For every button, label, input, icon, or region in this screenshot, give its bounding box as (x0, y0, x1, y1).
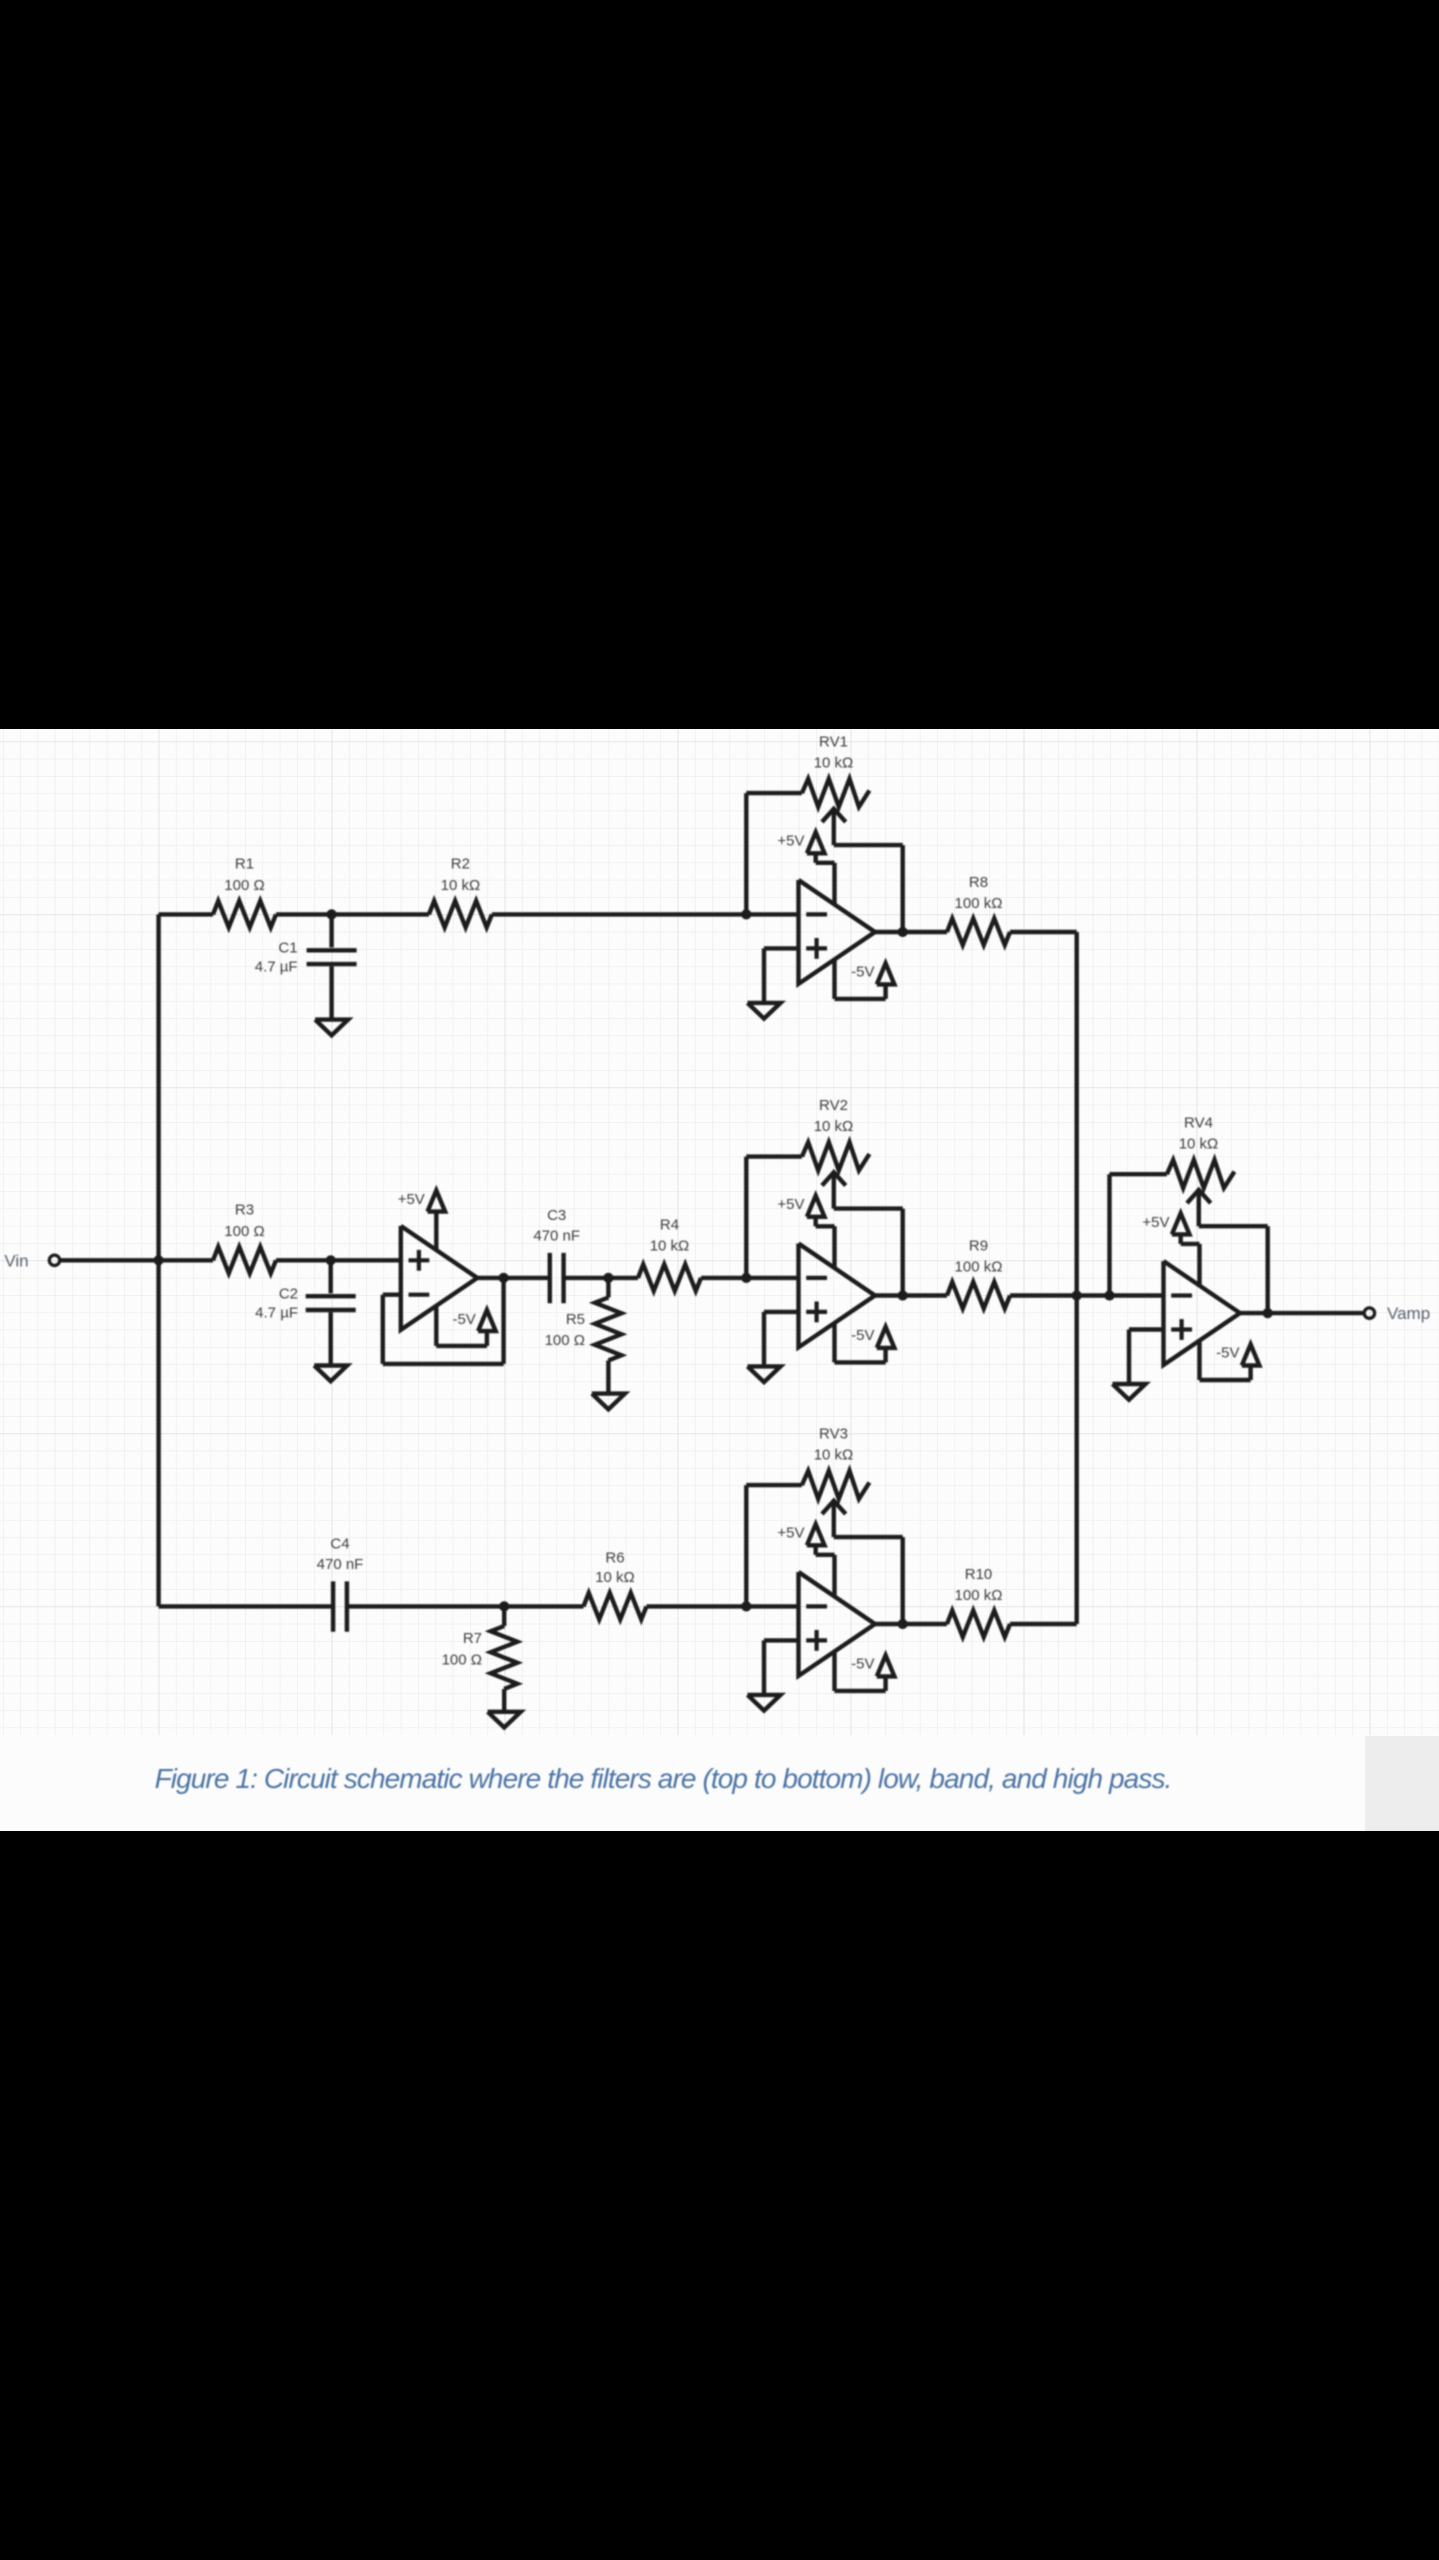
-5V supply arrow for U2 (835, 1323, 895, 1362)
-5V supply arrow for buffer U5 (436, 1305, 495, 1346)
svg-text:RV3: RV3 (819, 1425, 848, 1442)
svg-text:-5V: -5V (851, 1327, 874, 1344)
wiper of RV3 to U3 output (822, 1501, 903, 1624)
svg-text:-5V: -5V (1216, 1345, 1239, 1362)
wire: junction to U4 inverting input (1110, 1293, 1164, 1297)
capacitor C4 470 nF (series) (333, 1581, 347, 1631)
wire: feedback from RV2 to op-amp U2 inverting input (746, 1157, 802, 1278)
resistor R6 10 kOhm (584, 1593, 647, 1620)
wire: left bus to R3 (159, 1258, 213, 1262)
-5V supply arrow for U1 (835, 960, 895, 999)
potentiometer RV1 10 k&#937; (802, 779, 870, 807)
svg-text:R1: R1 (235, 855, 254, 872)
svg-text:10 kΩ: 10 kΩ (650, 1237, 690, 1254)
svg-text:10 kΩ: 10 kΩ (814, 754, 854, 771)
wire: summing bus joining R8, R9, R10 (1074, 932, 1078, 1624)
svg-text:100 Ω: 100 Ω (545, 1332, 585, 1349)
ground at U2 non-inverting input (748, 1366, 781, 1382)
ground at U1 non-inverting input (748, 1003, 781, 1019)
wire: R2 to U1 inverting input (492, 912, 799, 916)
-5V supply arrow for U3 (835, 1652, 895, 1691)
svg-text:10 kΩ: 10 kΩ (814, 1446, 854, 1463)
node: C3/R5/R4 junction (603, 1273, 613, 1283)
wire: bus junction to RV4 feedback junction (1077, 1293, 1110, 1297)
svg-text:+5V: +5V (777, 1196, 804, 1213)
wiper of RV4 to U4 output (1187, 1190, 1268, 1313)
node: R3/C2 junction (326, 1255, 336, 1265)
+5V supply arrow for U3 (807, 1524, 835, 1596)
capacitor C3 470 nF (series) (550, 1253, 564, 1303)
op-amp U2 (799, 1244, 876, 1348)
+5V supply arrow for U1 (807, 832, 835, 904)
svg-text:+5V: +5V (777, 1525, 804, 1542)
svg-text:10 kΩ: 10 kΩ (595, 1569, 635, 1586)
svg-text:100 kΩ: 100 kΩ (955, 1259, 1003, 1276)
svg-text:R5: R5 (566, 1311, 585, 1328)
document page (0, 729, 1439, 1831)
op-amp U5 (unity-gain buffer) (401, 1226, 478, 1330)
wire: U4 non-inverting input to ground (1129, 1330, 1164, 1385)
svg-text:+5V: +5V (398, 1191, 425, 1208)
wiper of RV2 to U2 output (822, 1172, 903, 1295)
svg-text:-5V: -5V (452, 1311, 475, 1328)
wire: feedback from RV4 to op-amp U4 inverting input (1110, 1174, 1167, 1295)
svg-text:RV2: RV2 (819, 1097, 848, 1114)
+5V supply arrow for U2 (807, 1196, 835, 1268)
svg-text:C4: C4 (330, 1535, 349, 1552)
wire: U1 non-inverting input to ground (764, 948, 799, 1003)
svg-text:100 kΩ: 100 kΩ (955, 895, 1003, 912)
wire: Vin to left bus (60, 1258, 158, 1262)
svg-text:10 kΩ: 10 kΩ (814, 1118, 854, 1135)
svg-text:C1: C1 (278, 939, 297, 956)
wire: bottom row lead to C4 (159, 1604, 333, 1608)
-5V supply arrow for U4 (1200, 1341, 1260, 1380)
resistor R9 100 kOhm (903, 1282, 1077, 1309)
node: U4 output junction (1263, 1308, 1273, 1318)
resistor R10 100 kOhm (903, 1611, 1077, 1638)
svg-text:C3: C3 (547, 1207, 566, 1224)
ground below R7 (488, 1712, 521, 1728)
node Vamp terminal (1364, 1308, 1374, 1318)
wire: buffer U5 output to C3 (477, 1276, 550, 1280)
potentiometer RV4 10 kOhm (1167, 1160, 1235, 1188)
svg-text:R4: R4 (660, 1216, 679, 1233)
wire: C3 to R4 (564, 1276, 638, 1280)
ground below R5 (592, 1394, 625, 1410)
svg-text:10 kΩ: 10 kΩ (441, 877, 481, 894)
resistor R7 100 Ohm (to ground) (491, 1606, 518, 1711)
svg-text:470 nF: 470 nF (533, 1227, 580, 1244)
svg-text:100 Ω: 100 Ω (224, 877, 264, 894)
svg-text:RV4: RV4 (1184, 1115, 1213, 1132)
node: buffer U5 output junction (499, 1273, 509, 1283)
capacitor C1 4.7 uF (shunt) (307, 914, 357, 1019)
svg-text:100 kΩ: 100 kΩ (955, 1587, 1003, 1604)
figure caption (155, 1763, 1172, 1794)
svg-text:+5V: +5V (777, 833, 804, 850)
node: U3 inverting input junction (741, 1601, 751, 1611)
scrollbar corner block (1365, 1736, 1439, 1831)
op-amp U3 (799, 1572, 876, 1676)
+5V supply arrow for buffer op-amp U5 (428, 1191, 446, 1251)
svg-text:470 nF: 470 nF (317, 1556, 364, 1573)
wire: top row lead to R1 (159, 912, 213, 916)
wire: U1 output (875, 930, 903, 934)
svg-text:R8: R8 (969, 874, 988, 891)
ground below C1 (315, 1020, 348, 1036)
resistor R3 100 Ohm (213, 1247, 276, 1274)
node: U3 output junction (898, 1619, 908, 1629)
node Vin terminal (49, 1255, 59, 1265)
capacitor C2 4.7 uF (shunt) (306, 1260, 356, 1365)
wire: U2 non-inverting input to ground (764, 1312, 799, 1367)
svg-text:R3: R3 (235, 1201, 254, 1218)
svg-text:100 Ω: 100 Ω (224, 1223, 264, 1240)
node: C4/R7/R6 junction (499, 1601, 509, 1611)
resistor R2 10 kOhm (429, 901, 492, 928)
wire: U2 output (875, 1293, 903, 1297)
svg-text:R9: R9 (969, 1238, 988, 1255)
svg-text:Vin: Vin (4, 1251, 28, 1270)
wire: C4 to R6 (347, 1604, 584, 1608)
svg-text:-5V: -5V (851, 1655, 874, 1672)
resistor R5 100 Ohm (to ground) (595, 1278, 622, 1394)
svg-text:R7: R7 (463, 1630, 482, 1647)
svg-text:Figure 1: Circuit schematic wh: Figure 1: Circuit schematic where the fi… (155, 1763, 1172, 1794)
wire: feedback from RV3 to op-amp U3 inverting input (746, 1485, 802, 1606)
svg-text:RV1: RV1 (819, 733, 848, 750)
node: U2 output junction (898, 1290, 908, 1300)
node: U1 inverting input junction (741, 909, 751, 919)
svg-text:R10: R10 (965, 1566, 993, 1583)
svg-text:100 Ω: 100 Ω (442, 1651, 482, 1668)
op-amp U1 (799, 880, 876, 984)
node: left bus / Vin junction (154, 1255, 164, 1265)
node: bus / R9 junction (1072, 1290, 1082, 1300)
wire: buffer U5 feedback loop output to inverting input (383, 1278, 504, 1364)
svg-text:10 kΩ: 10 kΩ (1179, 1136, 1219, 1153)
wire: feedback from RV1 to op-amp U1 inverting input (746, 793, 802, 914)
node: U1 output junction (898, 927, 908, 937)
wire: R4 to U2 inverting input (701, 1276, 799, 1280)
ground at U3 non-inverting input (748, 1695, 781, 1711)
svg-text:C2: C2 (279, 1285, 298, 1302)
+5V supply arrow for U4 (1172, 1213, 1200, 1285)
resistor R1 100 Ohm (213, 901, 276, 928)
svg-text:+5V: +5V (1142, 1214, 1169, 1231)
svg-text:4.7 µF: 4.7 µF (255, 958, 298, 975)
node: R1/C1/R2 junction (327, 909, 337, 919)
ground below C2 (314, 1366, 347, 1382)
resistor R4 10 kOhm (638, 1264, 701, 1291)
potentiometer RV2 10 k&#937; (802, 1142, 870, 1170)
wire: R1 to R2 (276, 912, 429, 916)
wire: U3 output (875, 1622, 903, 1626)
svg-text:-5V: -5V (851, 963, 874, 980)
svg-text:Vamp: Vamp (1387, 1304, 1430, 1323)
potentiometer RV3 10 k&#937; (802, 1471, 870, 1499)
wire: R3 to buffer + input (276, 1258, 401, 1262)
wire: U4 output to Vamp terminal (1240, 1311, 1364, 1315)
svg-text:R6: R6 (605, 1549, 624, 1566)
node: U2 inverting input junction (741, 1273, 751, 1283)
resistor R8 100 kOhm (903, 919, 1077, 946)
op-amp U4 (1164, 1261, 1241, 1365)
node: RV4 feedback junction (1104, 1290, 1114, 1300)
ground at U4 non-inverting input (1113, 1384, 1146, 1400)
wire: left vertical bus (156, 914, 160, 1606)
wiper of RV1 to U1 output (822, 809, 903, 932)
wire: U3 non-inverting input to ground (764, 1640, 799, 1695)
svg-text:R2: R2 (451, 855, 470, 872)
svg-text:4.7 µF: 4.7 µF (255, 1304, 298, 1321)
wire: R6 to U3 inverting input (647, 1604, 799, 1608)
